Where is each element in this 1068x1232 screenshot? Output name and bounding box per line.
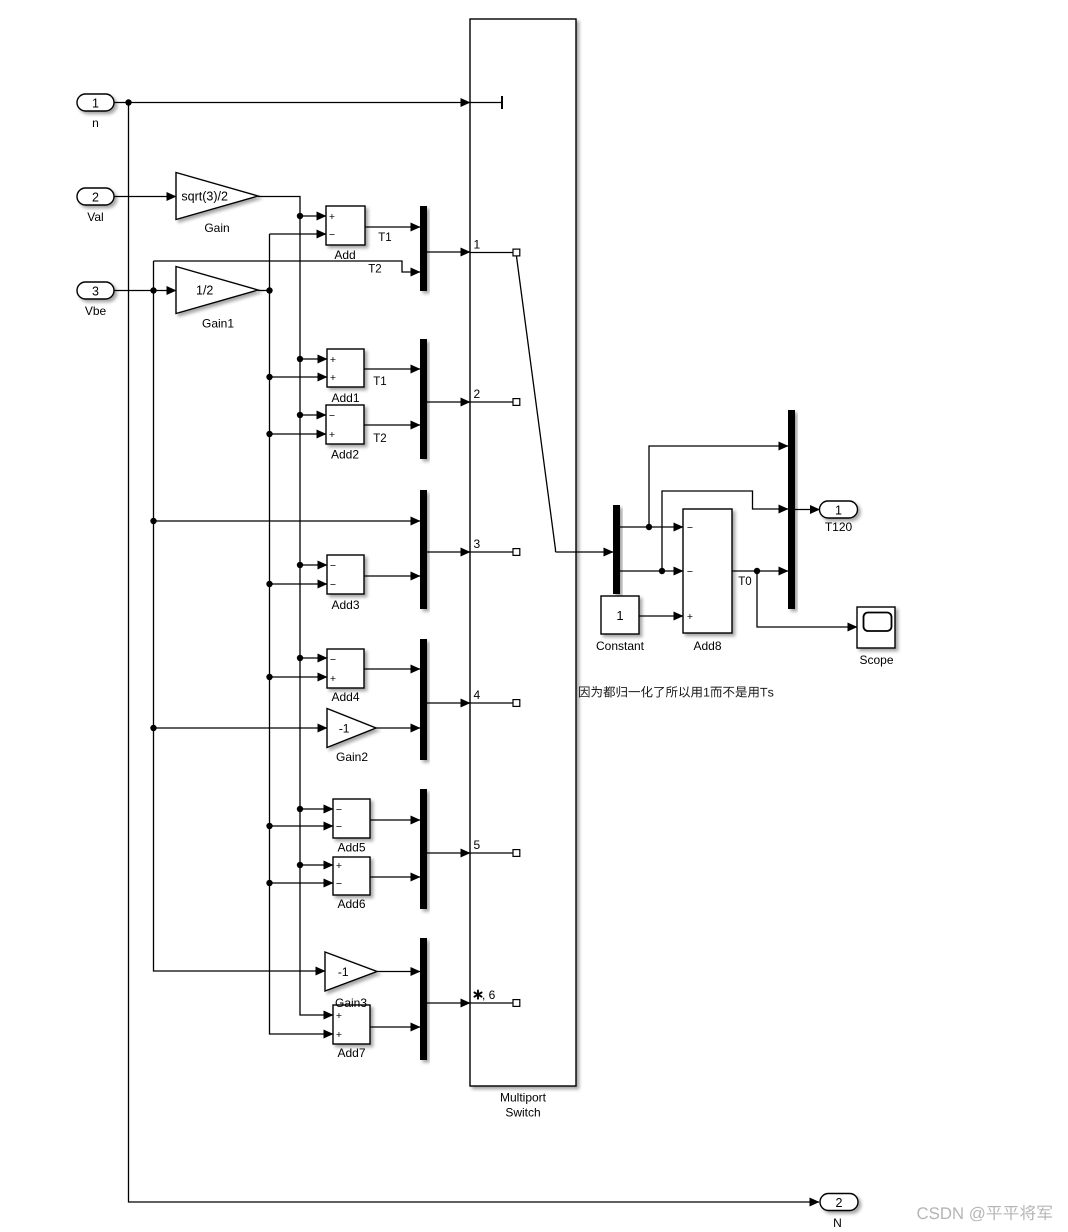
svg-text:T1: T1 (373, 376, 386, 388)
adder Add4 (327, 649, 364, 704)
wire Add3 out (364, 575, 420, 577)
wire Vbe rail (150, 261, 420, 971)
svg-text:T1: T1 (378, 232, 391, 244)
svg-text:−: − (329, 410, 335, 422)
svg-text:+: + (336, 860, 342, 872)
svg-text:+: + (336, 1029, 342, 1041)
constant Constant 1 (596, 596, 645, 653)
svg-text:Constant: Constant (596, 639, 645, 653)
switch port 552 (470, 537, 520, 555)
wire Constant to Add8 in3 (639, 615, 683, 617)
svg-text:Add8: Add8 (693, 639, 721, 653)
svg-text:+: + (687, 611, 693, 623)
wire Add8 out T0 (732, 568, 788, 588)
wire n branch down to outport N (129, 103, 820, 1203)
svg-text:+: + (329, 429, 335, 441)
svg-text:1/2: 1/2 (196, 284, 213, 298)
wire Add2 out T2 (364, 425, 420, 445)
svg-text:1: 1 (616, 608, 623, 623)
watermark CSDN (917, 1205, 1052, 1221)
inport 3 Vbe (77, 282, 114, 318)
wire M5 to switch port5 (427, 852, 470, 854)
svg-text:N: N (833, 1216, 842, 1230)
svg-text:+: + (330, 354, 336, 366)
wire Add1 out T1 (364, 369, 420, 388)
wire demux out2 tap to mux M7 in2 (662, 491, 788, 571)
switch control marker (470, 96, 502, 109)
svg-text:3: 3 (474, 537, 481, 551)
wire M6 to switch port6 (427, 1002, 470, 1004)
svg-text:sqrt(3)/2: sqrt(3)/2 (181, 190, 228, 204)
switch port 252.5 (470, 238, 520, 256)
inport 2 Val (77, 188, 114, 224)
label Multiport Switch (500, 1091, 547, 1120)
wire demux out1 tap to mux M7 in1 (649, 446, 788, 527)
svg-text:−: − (330, 579, 336, 591)
mux M6 (420, 938, 427, 1060)
svg-text:5: 5 (474, 838, 481, 852)
mux M3 (420, 490, 427, 609)
svg-text:-1: -1 (338, 965, 349, 979)
gain Gain3 -1 (325, 952, 377, 991)
svg-text:−: − (336, 804, 342, 816)
adder Add (326, 206, 365, 262)
switch selected path (517, 257, 556, 553)
adder Add8 (683, 509, 732, 653)
svg-text:+: + (336, 1010, 342, 1022)
svg-text:Switch: Switch (505, 1106, 540, 1120)
svg-text:T0: T0 (738, 576, 751, 588)
mux M2 (420, 339, 427, 459)
switch port 703 (470, 688, 520, 706)
mux M7 (788, 410, 795, 609)
svg-text:Gain1: Gain1 (202, 317, 234, 331)
svg-text:+: + (330, 372, 336, 384)
wire M7 to outport T120 (795, 509, 820, 511)
svg-text:Gain: Gain (204, 221, 229, 235)
wire Vbe to Gain1 (114, 287, 176, 293)
svg-text:Vbe: Vbe (85, 304, 107, 318)
wire Add5 out (370, 819, 420, 821)
svg-text:Multiport: Multiport (500, 1091, 547, 1105)
wire M4 to switch port4 (427, 702, 470, 704)
switch port 402 (470, 387, 520, 405)
svg-text:Val: Val (87, 210, 103, 224)
multiport switch (470, 19, 576, 1086)
mux M1 (420, 206, 427, 291)
adder Add1 (327, 349, 364, 405)
svg-text:n: n (92, 116, 99, 130)
svg-text:−: − (336, 878, 342, 890)
wire Add out T1 (365, 227, 420, 244)
svg-text:Add1: Add1 (331, 391, 359, 405)
wire Gain2 out (376, 727, 420, 729)
switch port 1003 (470, 988, 520, 1006)
svg-text:2: 2 (474, 387, 481, 401)
wire M3 to switch port3 (427, 551, 470, 553)
adder Add2 (326, 405, 364, 462)
svg-text:-1: -1 (339, 722, 350, 736)
wire Gain3 out (377, 971, 420, 973)
gain Gain sqrt(3)/2 (176, 173, 258, 236)
demux (613, 505, 620, 594)
adder Add5 (333, 799, 370, 855)
svg-text:2: 2 (836, 1196, 843, 1210)
svg-text:Scope: Scope (859, 653, 893, 667)
wire M2 to switch port2 (427, 401, 470, 403)
svg-text:Gain3: Gain3 (335, 996, 367, 1010)
svg-text:3: 3 (92, 284, 99, 298)
adder Add6 (333, 857, 370, 911)
scope Scope (857, 607, 895, 667)
svg-text:T120: T120 (825, 520, 853, 534)
svg-text:−: − (329, 229, 335, 241)
svg-text:+: + (329, 211, 335, 223)
wire Add6 out (370, 876, 420, 878)
label Gain3 (335, 996, 367, 1010)
svg-text:T2: T2 (368, 264, 381, 276)
svg-text:1: 1 (474, 238, 481, 252)
svg-text:Add5: Add5 (337, 841, 365, 855)
adder Add7 (333, 1005, 370, 1060)
svg-text:Add3: Add3 (331, 598, 359, 612)
svg-text:Add: Add (334, 248, 355, 262)
svg-text:Gain2: Gain2 (336, 750, 368, 764)
wire demux out2 to Add8 in2 (620, 568, 683, 574)
wire Add7 out (370, 1026, 420, 1028)
svg-text:Add7: Add7 (337, 1046, 365, 1060)
label T2 (368, 264, 381, 276)
wire switch output to demux (556, 551, 614, 553)
svg-text:−: − (687, 566, 693, 578)
gain Gain1 1/2 (176, 267, 258, 331)
wire Add4 out (364, 668, 420, 670)
mux M4 (420, 639, 427, 760)
wire demux out1 to Add8 in1 (620, 524, 683, 530)
svg-text:1: 1 (835, 503, 842, 517)
svg-text:T2: T2 (373, 433, 386, 445)
wire Val to Gain (114, 196, 176, 198)
svg-text:Add2: Add2 (331, 448, 359, 462)
svg-text:−: − (330, 654, 336, 666)
wire M1 to switch port1 (427, 251, 470, 253)
inport 1 n (77, 94, 114, 130)
svg-text:, 6: , 6 (482, 988, 496, 1002)
svg-text:−: − (330, 560, 336, 572)
mux M5 (420, 789, 427, 909)
outport 1 T120 (820, 501, 858, 534)
wire Gain1 output rail (258, 234, 333, 1034)
wire Gain output rail (258, 197, 333, 1016)
svg-text:4: 4 (474, 688, 481, 702)
annotation chinese note (579, 686, 773, 698)
switch port 853 (470, 838, 520, 856)
wire n to switch control (114, 99, 470, 105)
outport 2 N (820, 1194, 858, 1231)
svg-text:1: 1 (92, 96, 99, 110)
svg-text:2: 2 (92, 190, 99, 204)
svg-text:Add6: Add6 (337, 897, 365, 911)
adder Add3 (327, 555, 364, 612)
svg-text:−: − (336, 821, 342, 833)
svg-text:−: − (687, 522, 693, 534)
gain Gain2 -1 (327, 709, 376, 765)
svg-text:Add4: Add4 (331, 690, 359, 704)
wire T0 to Scope (757, 571, 857, 627)
svg-text:+: + (330, 673, 336, 685)
